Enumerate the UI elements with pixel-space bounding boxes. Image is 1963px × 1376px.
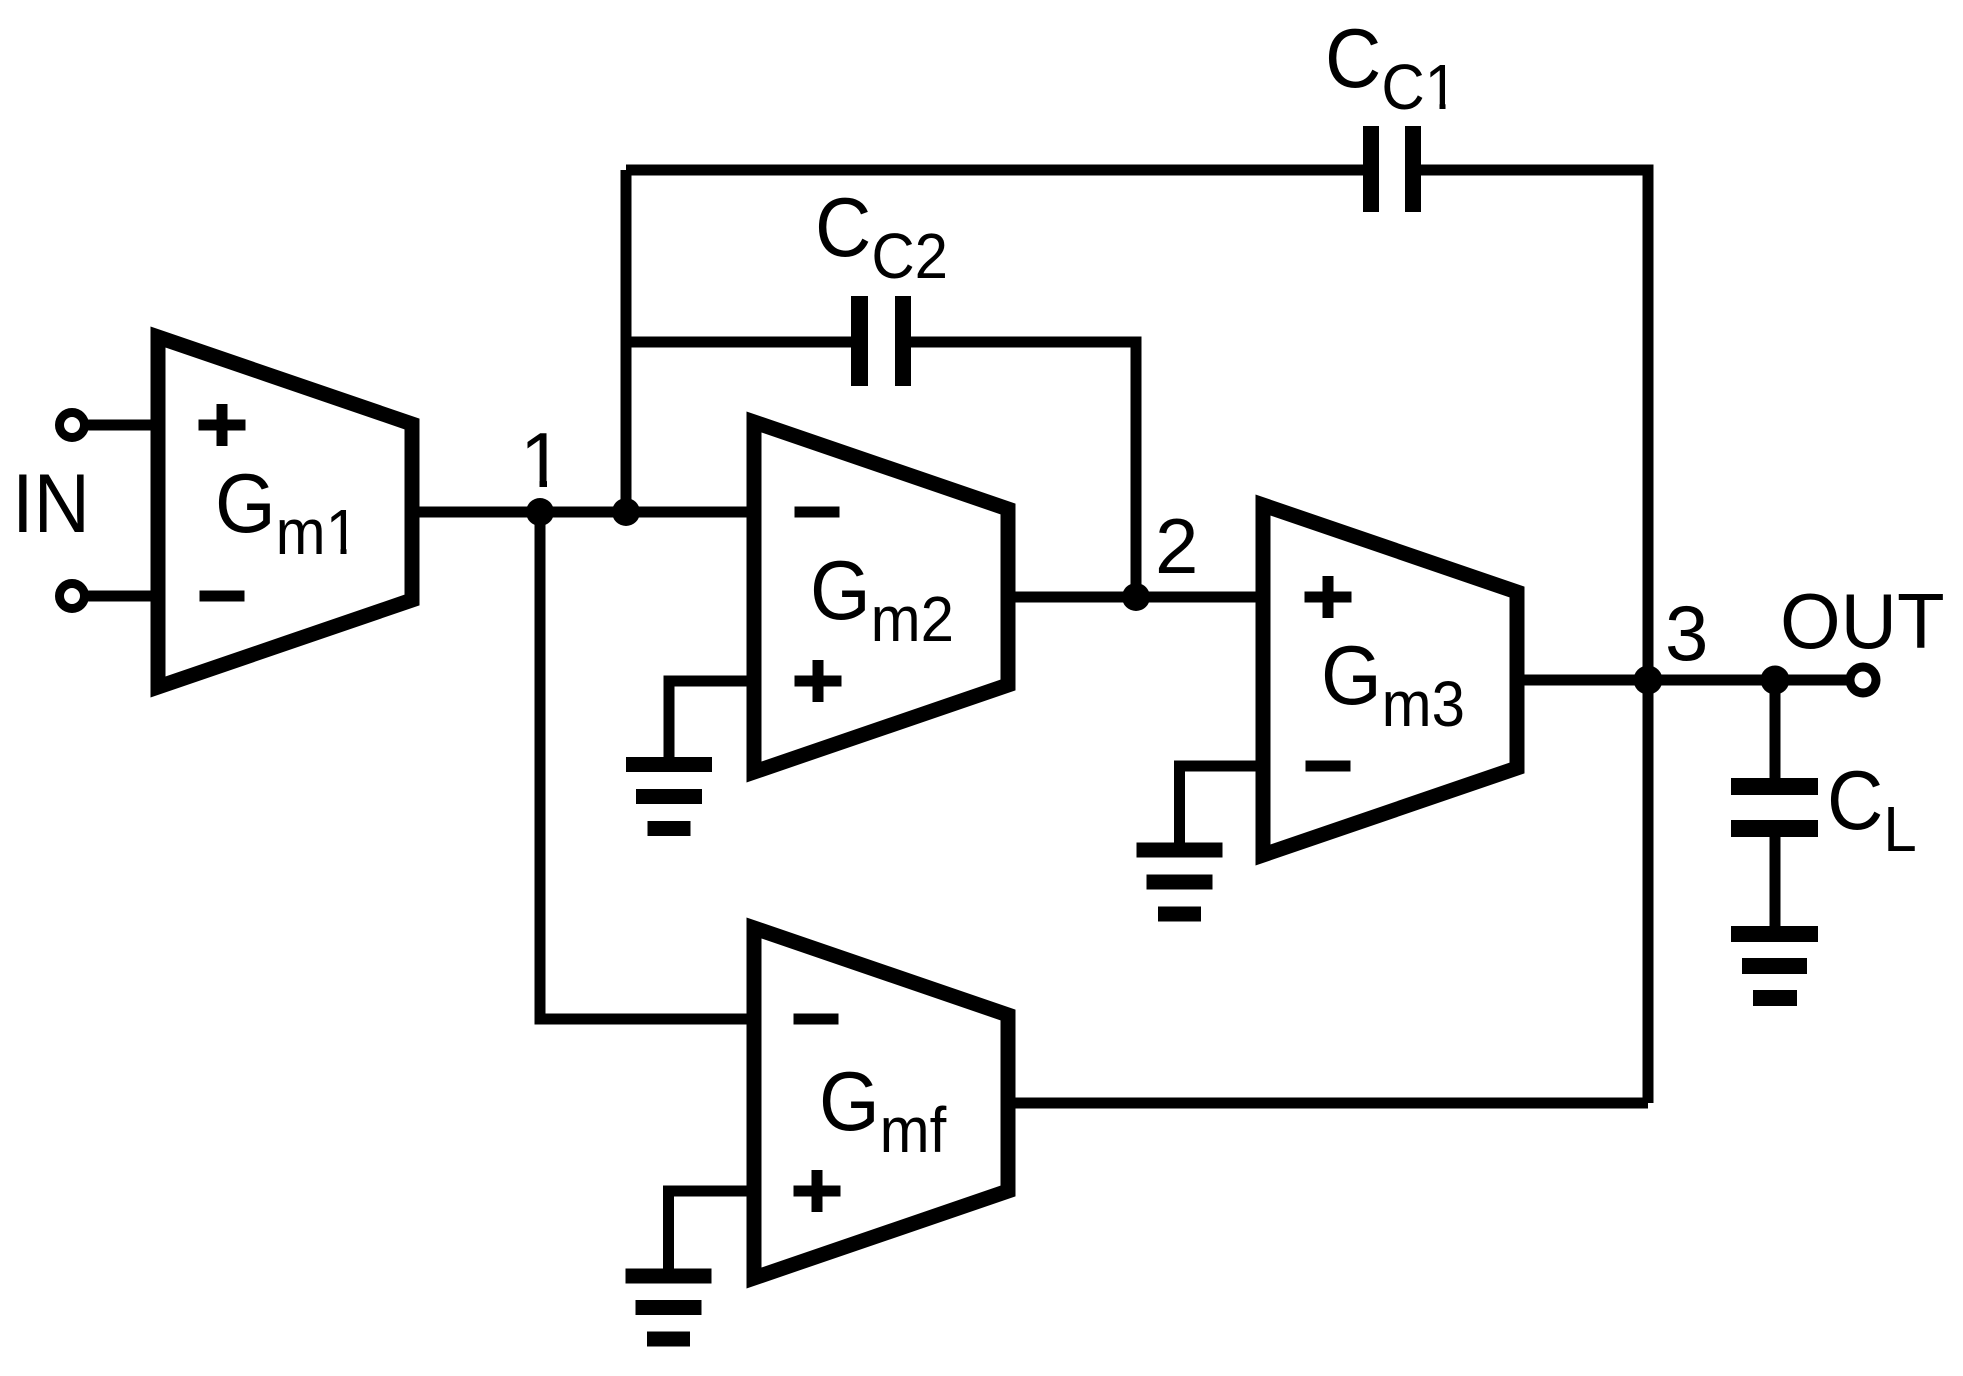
wire CL to ground <box>1770 837 1781 927</box>
op-amp Gmf body <box>754 928 1008 1278</box>
terminal IN- <box>60 584 85 609</box>
wire CC1 right and down to node3 and Gmf out <box>1421 170 1648 1103</box>
op-amp Gm1 body <box>158 337 412 687</box>
node 3 <box>1634 666 1663 695</box>
Gm3 inverting input mark - <box>1306 761 1351 772</box>
Gm1 inverting input mark - <box>200 591 245 602</box>
wire OUT dot down to CL <box>1770 680 1781 778</box>
op-amp Gm2 body <box>754 422 1008 772</box>
svg-text:2: 2 <box>1155 502 1198 590</box>
Gmf inverting input mark - <box>794 1014 839 1025</box>
capacitor CC2 <box>815 182 948 386</box>
svg-text:1: 1 <box>520 416 563 504</box>
node 2 <box>1122 583 1150 611</box>
Gm3 noninverting input mark + <box>1305 592 1352 603</box>
svg-text:OUT: OUT <box>1780 577 1945 665</box>
wire node1 main (Gm1 out to Gm2 minus) <box>412 507 754 518</box>
wire Gmf plus stub to ground <box>669 1191 755 1269</box>
node 1 <box>526 498 554 526</box>
CL plates <box>1731 778 1818 795</box>
font foot-serif masks for digit 1 glyphs <box>524 480 540 489</box>
wire Gm3 out to OUT terminal <box>1517 675 1849 686</box>
node OUT dot <box>1761 666 1790 695</box>
terminal OUT <box>1850 667 1876 693</box>
op-amp Gm2 <box>754 422 1008 772</box>
CC2 plates <box>851 296 868 386</box>
svg-text:IN: IN <box>12 458 90 551</box>
terminal IN+ <box>60 413 85 438</box>
wire Gm3 minus stub to ground <box>1180 766 1264 843</box>
svg-text:3: 3 <box>1665 589 1708 677</box>
op-amp Gm3 body <box>1263 505 1517 855</box>
wire Gm2 plus stub to ground <box>669 681 754 758</box>
wire junction up to CC1/CC2 <box>621 170 632 512</box>
ground Gm2 <box>626 757 712 836</box>
wire CC2 left <box>626 337 851 348</box>
wire CC2 right down to node 2 <box>911 342 1136 597</box>
wire IN- to Gm1 <box>84 591 160 602</box>
wire top CC1 left <box>626 165 1363 176</box>
op-amp Gmf <box>754 928 1008 1278</box>
wire node1 down to Gmf <box>540 512 754 1019</box>
Gm1 noninverting input mark + <box>199 420 246 431</box>
CC1 plates <box>1363 126 1379 212</box>
capacitor CL <box>1731 755 1917 866</box>
Gmf noninverting input mark + <box>794 1186 841 1197</box>
op-amp Gm3 <box>1263 505 1517 855</box>
ground Gm3 <box>1137 843 1223 922</box>
wire Gmf out to right vertical <box>1008 1098 1648 1109</box>
node junction dot <box>612 498 640 526</box>
op-amp Gm1 <box>158 337 412 687</box>
ground CL <box>1731 926 1818 1006</box>
ground Gmf <box>626 1269 712 1347</box>
Gm2 inverting input mark - <box>795 507 840 518</box>
wire IN+ to Gm1 <box>84 420 160 431</box>
wire Gm2 out to Gm3 (node 2) <box>1008 592 1263 603</box>
Gm2 noninverting input mark + <box>795 676 842 687</box>
capacitor CC1 <box>1325 13 1458 212</box>
